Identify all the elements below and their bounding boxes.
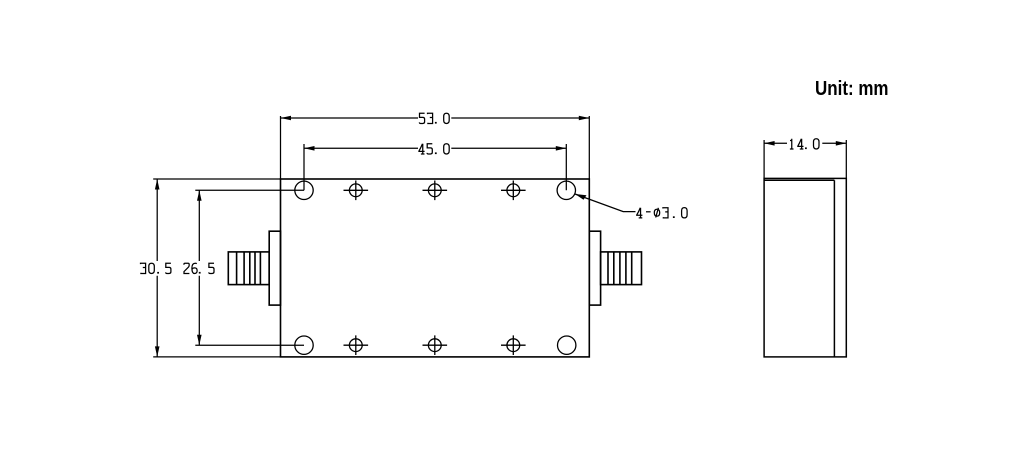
top view body outline (281, 179, 590, 357)
arrowhead 30.5 top (155, 179, 160, 190)
dim 30.5 extension lines (153, 179, 280, 357)
dim text 53.0 (419, 113, 449, 123)
side view lid seam horizontal (764, 179, 834, 181)
screw hole with crosshair bottom 3 (507, 339, 520, 352)
dim 45.0 dimension line (304, 147, 566, 149)
arrowhead leader (575, 194, 587, 200)
dim 53.0 extension lines (281, 116, 590, 179)
arrowhead 26.5 top (197, 190, 202, 201)
side view lid seam vertical (833, 180, 835, 357)
arrowhead 14.0 left (764, 141, 775, 146)
arrowhead 45.0 right (556, 146, 567, 151)
right connector flange (589, 231, 600, 305)
leader line for 4-phi3.0 (575, 194, 636, 212)
dim text 30.5 (141, 263, 171, 273)
screw hole with crosshair top 3 (507, 184, 520, 197)
screw hole with crosshair bottom 2 (428, 339, 441, 352)
right barrel thread lines (608, 252, 632, 285)
arrowhead 53.0 right (579, 116, 590, 121)
left barrel thread lines (237, 252, 261, 285)
dim 26.5 extension lines (195, 190, 304, 345)
side view body outline (764, 178, 846, 357)
dim 30.5 dimension line (156, 179, 158, 357)
corner mounting hole bottom-right (558, 336, 576, 354)
screw hole with crosshair top 2 (428, 184, 441, 197)
arrowhead 30.5 bottom (155, 346, 160, 357)
corner mounting hole top-left (295, 181, 313, 199)
dim 53.0 dimension line (281, 117, 590, 119)
left connector barrel (228, 252, 269, 285)
corner mounting hole bottom-left (295, 336, 313, 354)
dim 45.0 extension lines (304, 144, 566, 190)
arrowhead 26.5 bottom (197, 335, 202, 346)
svg-text:Unit: mm: Unit: mm (815, 77, 889, 100)
dim 14.0 extension lines (764, 140, 846, 178)
arrowhead 53.0 left (281, 116, 292, 121)
right connector barrel (601, 252, 642, 285)
screw hole with crosshair top 1 (349, 184, 362, 197)
arrowhead 14.0 right (836, 141, 847, 146)
arrowhead 45.0 left (304, 146, 315, 151)
left connector flange (269, 231, 280, 305)
dim text 14.0 (790, 139, 819, 149)
dim 14.0 dimension line (764, 142, 846, 144)
screw hole with crosshair bottom 1 (349, 339, 362, 352)
leader text 4-phi3.0 (637, 208, 687, 218)
dim text 45.0 (419, 144, 449, 154)
dim 26.5 dimension line (198, 190, 200, 345)
dim text 26.5 (184, 263, 214, 273)
corner mounting hole top-right (557, 181, 575, 199)
